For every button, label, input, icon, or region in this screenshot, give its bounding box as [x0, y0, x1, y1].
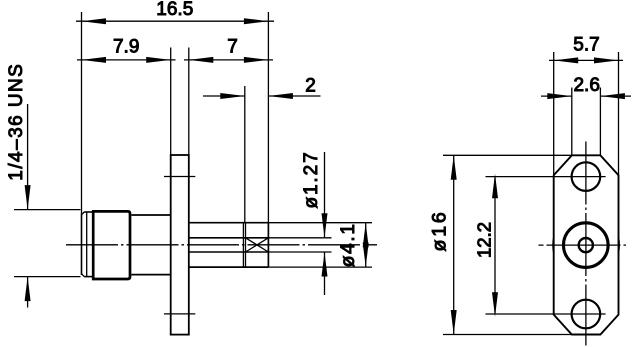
dimension o4.1: [268, 223, 372, 267]
flange front view outline: [554, 155, 619, 334]
svg-text:5.7: 5.7: [573, 34, 599, 55]
dimension 2.6: [541, 88, 631, 156]
wire centerline side view: [66, 244, 377, 246]
thread callout 1/4-36 UNS: [14, 104, 81, 308]
flange mounting hole top: [572, 162, 601, 191]
svg-text:12.2: 12.2: [474, 222, 495, 258]
connector thread end face: [82, 12, 93, 277]
barrel silhouette arc right: [618, 236, 619, 254]
hole centerline top front view: [486, 176, 606, 178]
barrel silhouette arc left: [553, 236, 554, 254]
svg-text:16.5: 16.5: [156, 0, 193, 20]
insulator crossed section box: [246, 238, 269, 252]
dimension 7: [184, 57, 273, 63]
coupling nut body: [93, 211, 130, 279]
svg-text:7: 7: [227, 36, 238, 57]
pin contact lines: [189, 238, 269, 252]
dimension o1.27: [268, 152, 331, 295]
horizontal centerline front view: [539, 244, 629, 246]
flange hole centerline top side view: [164, 176, 195, 178]
insulator face double line: [243, 223, 245, 267]
flange hole centerline bottom side view: [164, 313, 195, 315]
dimension o16: [443, 155, 572, 334]
svg-text:1/4–36 UNS: 1/4–36 UNS: [6, 63, 27, 181]
dimension 5.7: [549, 52, 623, 175]
interface pin circle o1.27: [579, 238, 593, 252]
svg-text:ø4.1: ø4.1: [338, 222, 359, 267]
dimension 16.5: [76, 18, 274, 24]
dimension 7.9: [77, 57, 176, 63]
svg-text:7.9: 7.9: [113, 36, 139, 57]
vertical centerline front view: [585, 142, 587, 346]
flange mounting hole bottom: [572, 300, 601, 329]
svg-text:ø16: ø16: [428, 209, 450, 251]
flange side view: [171, 48, 189, 335]
barrel between nut and flange: [131, 215, 170, 275]
dimension 2: [203, 86, 321, 223]
svg-text:ø1.27: ø1.27: [301, 150, 322, 208]
hole centerline bottom front view: [486, 313, 606, 315]
interface outer circle o4.1: [564, 223, 609, 268]
rear barrel o4.1: [189, 223, 269, 267]
svg-text:2.6: 2.6: [573, 75, 599, 96]
connector end face: [267, 12, 269, 267]
svg-text:2: 2: [305, 76, 316, 97]
dimension 12.2: [492, 174, 498, 317]
